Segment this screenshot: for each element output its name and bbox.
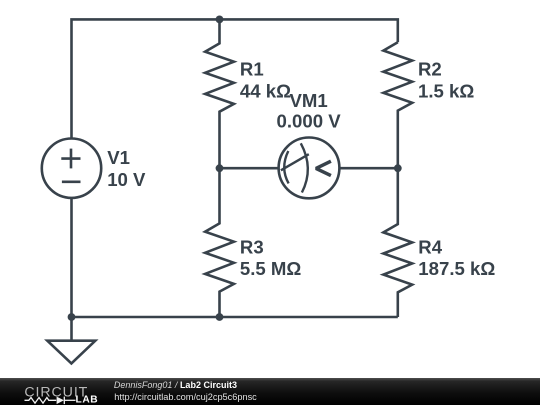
svg-text:0.000 V: 0.000 V xyxy=(277,111,342,132)
wire mid row left (node to voltmeter) xyxy=(220,167,279,170)
voltmeter scale arc inner xyxy=(284,151,288,183)
svg-text:R1: R1 xyxy=(240,59,264,80)
svg-text:R3: R3 xyxy=(240,236,264,257)
voltage source V1 circle xyxy=(42,139,101,198)
svg-text:V1: V1 xyxy=(107,147,130,168)
CircuitLab logo zigzag and diode xyxy=(25,397,76,405)
resistor R3 xyxy=(205,168,234,317)
voltmeter needle xyxy=(281,154,309,170)
voltmeter scale arc outer xyxy=(301,143,308,192)
V1 plus sign xyxy=(61,157,80,160)
node dot bottom-mid xyxy=(216,313,224,321)
wire left bottom (V1 to ground junction) xyxy=(70,198,73,341)
svg-text:VM1: VM1 xyxy=(289,90,327,111)
svg-text:DennisFong01 / Lab2 Circuit3: DennisFong01 / Lab2 Circuit3 xyxy=(114,380,237,390)
node dot mid-left xyxy=(216,164,224,172)
CircuitLab logo diode triangle xyxy=(57,397,64,405)
node dot mid-right xyxy=(394,164,402,172)
wire mid row right (voltmeter to R2/R4 node) xyxy=(339,167,397,170)
svg-text:5.5 MΩ: 5.5 MΩ xyxy=(240,258,302,279)
node dot top xyxy=(216,16,224,24)
svg-text:10 V: 10 V xyxy=(107,169,146,190)
svg-text:44 kΩ: 44 kΩ xyxy=(240,81,291,102)
resistor R2 xyxy=(383,42,412,168)
svg-text:R4: R4 xyxy=(418,236,442,257)
svg-text:R2: R2 xyxy=(418,59,442,80)
wire bottom rail xyxy=(72,316,398,319)
V1 minus sign xyxy=(62,181,81,184)
wire top rail xyxy=(72,19,398,138)
svg-text:http://circuitlab.com/cuj2cp5c: http://circuitlab.com/cuj2cp5c6pnsc xyxy=(114,392,257,402)
voltmeter V glyph (rotated) xyxy=(316,161,331,175)
resistor R4 xyxy=(383,168,412,317)
svg-text:187.5 kΩ: 187.5 kΩ xyxy=(418,258,495,279)
ground xyxy=(47,341,95,364)
node dot bottom-left (ground) xyxy=(68,313,76,321)
svg-text:LAB: LAB xyxy=(76,395,99,405)
resistor R1 xyxy=(205,19,234,168)
svg-text:1.5 kΩ: 1.5 kΩ xyxy=(418,81,474,102)
voltmeter VM1 circle xyxy=(279,138,340,199)
